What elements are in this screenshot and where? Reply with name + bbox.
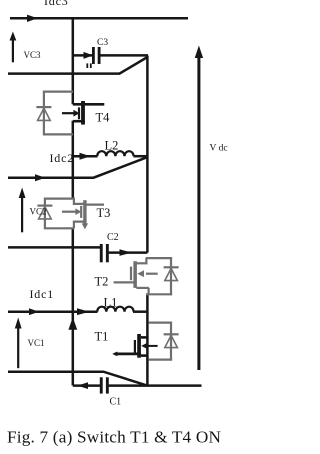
svg-text:T4: T4: [96, 111, 111, 125]
svg-text:C2: C2: [107, 232, 119, 243]
svg-text:V dc: V dc: [210, 144, 228, 154]
svg-text:L1: L1: [104, 296, 118, 310]
svg-text:T1: T1: [95, 330, 109, 344]
svg-text:VC1: VC1: [28, 338, 45, 348]
svg-text:C3: C3: [97, 38, 108, 48]
svg-text:Idc3: Idc3: [44, 0, 69, 8]
svg-text:L2: L2: [105, 139, 119, 153]
svg-text:VC2: VC2: [30, 207, 47, 217]
svg-text:Idc2: Idc2: [50, 151, 75, 165]
svg-text:Idc1: Idc1: [30, 287, 55, 301]
svg-text:C1: C1: [110, 397, 122, 408]
svg-text:T3: T3: [97, 206, 111, 220]
svg-text:VC3: VC3: [24, 50, 42, 60]
svg-text:Fig. 7 (a) Switch T1 & T4 ON: Fig. 7 (a) Switch T1 & T4 ON: [7, 428, 221, 447]
svg-text:T2: T2: [95, 275, 109, 289]
